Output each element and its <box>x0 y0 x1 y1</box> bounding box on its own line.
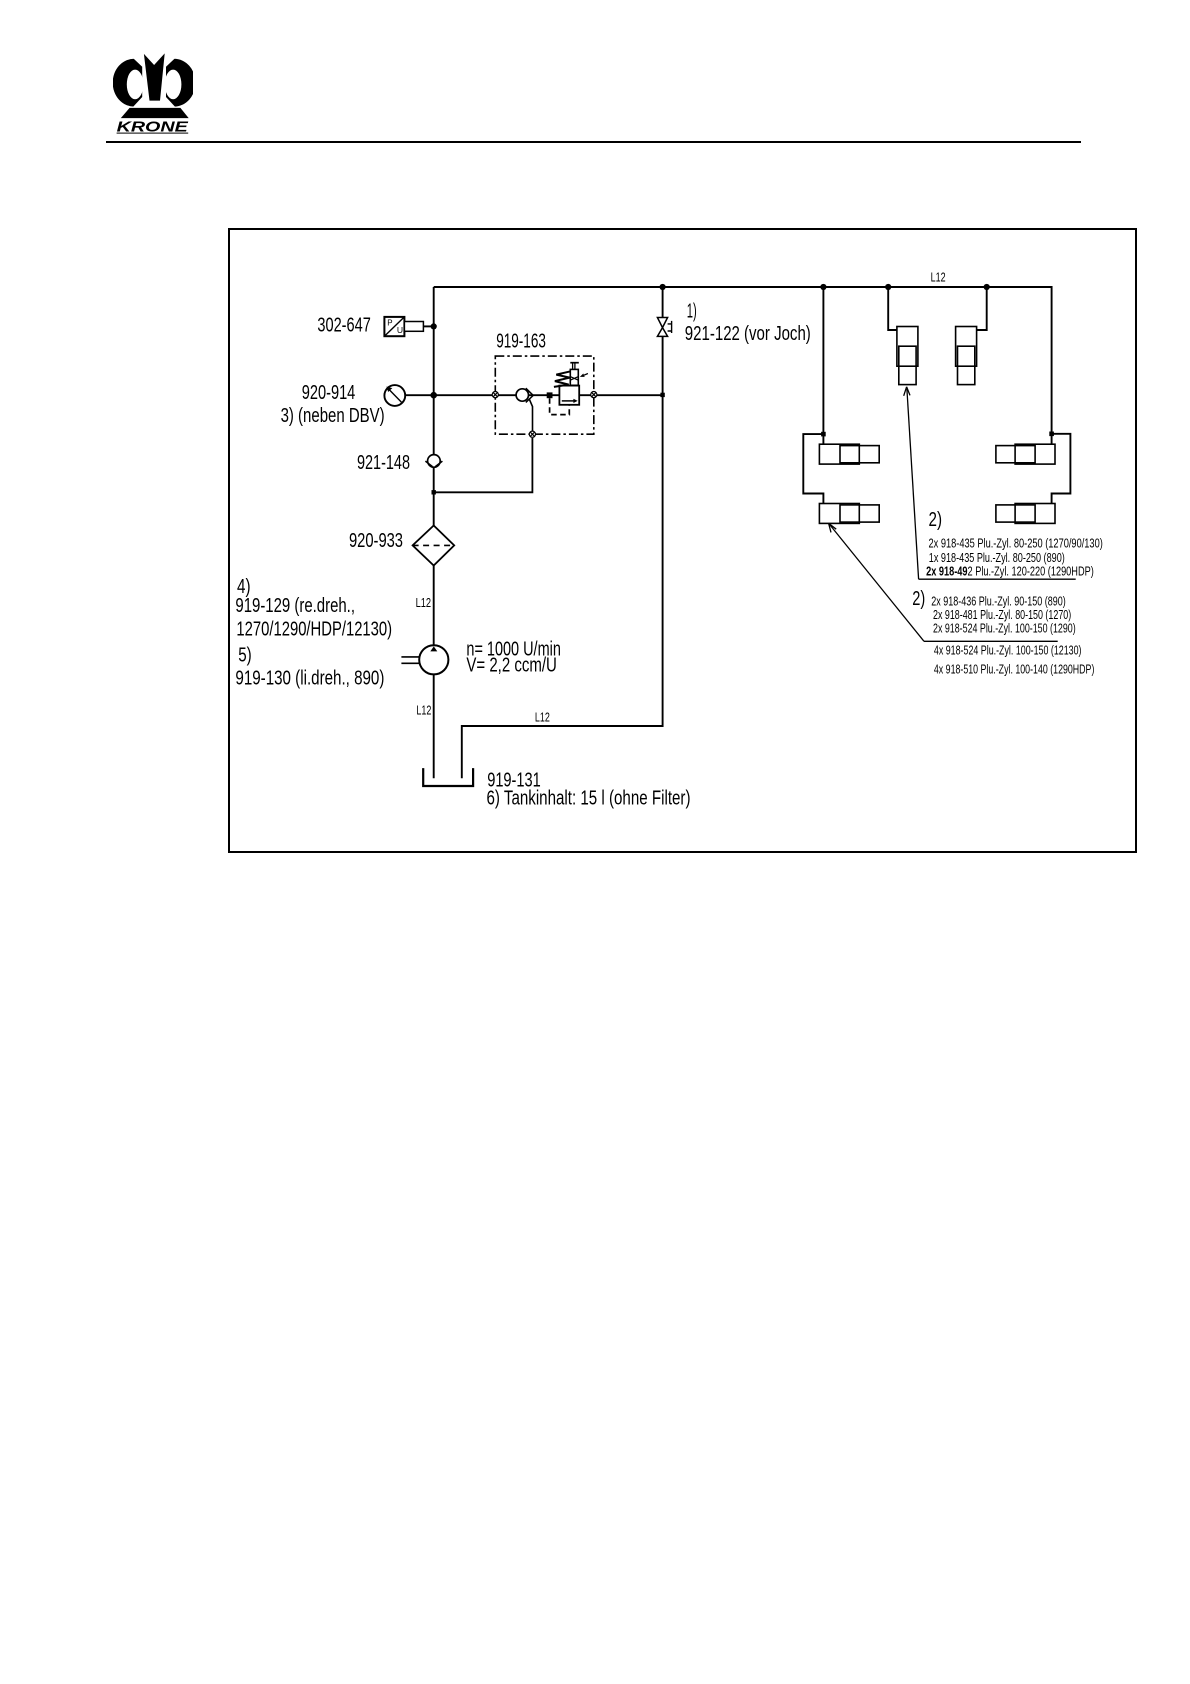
svg-text:2x 918-435 Plu.-Zyl. 80-250: 2x 918-435 Plu.-Zyl. 80-250 (1270/90/130… <box>929 536 1103 551</box>
svg-text:L12: L12 <box>416 595 432 610</box>
svg-text:4x 918-524 Plu.-Zyl. 100-150 (: 4x 918-524 Plu.-Zyl. 100-150 (12130) <box>934 642 1082 657</box>
svg-text:1): 1) <box>687 301 697 323</box>
svg-text:921-122 (vor Joch): 921-122 (vor Joch) <box>685 323 811 345</box>
svg-text:919-129 (re.dreh.,: 919-129 (re.dreh., <box>235 595 355 617</box>
svg-text:2): 2) <box>912 588 925 610</box>
svg-text:302-647: 302-647 <box>317 314 370 336</box>
svg-text:921-148: 921-148 <box>357 452 410 474</box>
svg-text:U: U <box>397 325 403 335</box>
svg-text:2x 918-524 Plu.-Zyl. 100-150 (: 2x 918-524 Plu.-Zyl. 100-150 (1290) <box>933 621 1076 636</box>
svg-text:919-130 (li.dreh., 890): 919-130 (li.dreh., 890) <box>235 667 384 689</box>
svg-text:2x 918-492 Plu.-Zyl. 120-220 (: 2x 918-492 Plu.-Zyl. 120-220 (1290HDP) <box>926 564 1094 579</box>
svg-text:5): 5) <box>238 644 252 666</box>
svg-text:6) Tankinhalt: 15 l (ohne Filt: 6) Tankinhalt: 15 l (ohne Filter) <box>487 787 691 809</box>
svg-text:L12: L12 <box>931 270 946 285</box>
svg-text:2): 2) <box>929 509 943 531</box>
svg-text:L12: L12 <box>535 710 550 725</box>
svg-text:4x 918-510 Plu.-Zyl. 100-140 (: 4x 918-510 Plu.-Zyl. 100-140 (1290HDP) <box>934 661 1095 676</box>
svg-text:L12: L12 <box>416 703 431 718</box>
svg-text:919-163: 919-163 <box>496 331 546 353</box>
svg-text:920-914: 920-914 <box>302 382 356 404</box>
svg-text:3) (neben DBV): 3) (neben DBV) <box>281 405 385 427</box>
svg-text:P: P <box>387 319 392 328</box>
svg-text:920-933: 920-933 <box>349 530 403 552</box>
svg-text:V= 2,2 ccm/U: V= 2,2 ccm/U <box>466 655 557 677</box>
svg-text:1270/1290/HDP/12130): 1270/1290/HDP/12130) <box>236 618 392 640</box>
